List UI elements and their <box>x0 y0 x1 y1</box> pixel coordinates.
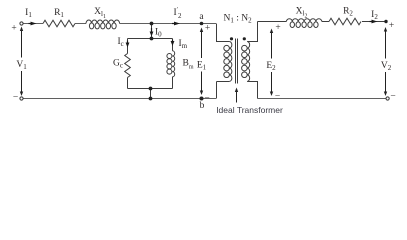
svg-text:R1: R1 <box>54 8 64 19</box>
svg-text:I0: I0 <box>155 28 162 39</box>
svg-text:Xl2: Xl2 <box>296 7 308 20</box>
svg-text:+: + <box>275 23 280 33</box>
svg-text:Xl1: Xl1 <box>94 7 106 20</box>
svg-text:N1 : N2: N1 : N2 <box>223 14 252 25</box>
svg-text:E2: E2 <box>266 61 276 72</box>
svg-text:I1: I1 <box>25 8 32 19</box>
svg-text:Ideal Transformer: Ideal Transformer <box>216 105 283 115</box>
svg-text:Gc: Gc <box>113 59 123 70</box>
svg-text:−: − <box>275 92 280 102</box>
svg-text:I′2: I′2 <box>174 7 182 20</box>
svg-text:+: + <box>389 21 394 31</box>
svg-text:V1: V1 <box>16 60 27 71</box>
svg-text:R2: R2 <box>343 7 353 18</box>
svg-text:+: + <box>205 24 210 34</box>
svg-text:a: a <box>199 12 204 22</box>
svg-text:E1: E1 <box>197 61 207 72</box>
svg-text:−: − <box>390 92 395 102</box>
svg-text:Ic: Ic <box>118 37 124 48</box>
svg-text:I2: I2 <box>371 10 378 21</box>
svg-text:+: + <box>11 24 16 34</box>
svg-text:−: − <box>13 93 18 103</box>
svg-text:Bm: Bm <box>183 59 194 71</box>
svg-text:V2: V2 <box>381 61 392 72</box>
svg-text:−: − <box>204 94 209 104</box>
svg-text:Im: Im <box>179 39 188 50</box>
